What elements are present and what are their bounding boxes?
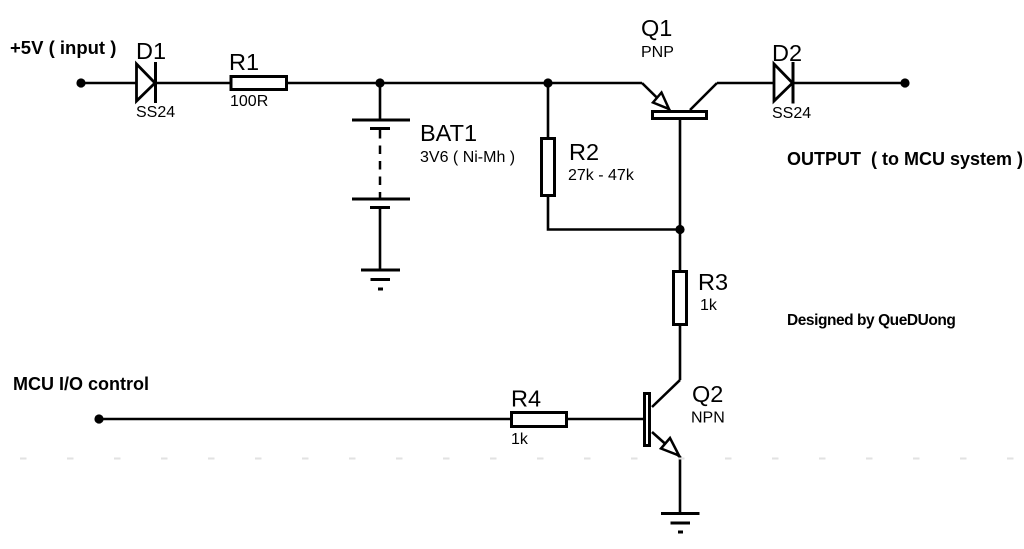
svg-text:D2: D2	[772, 40, 802, 66]
node junction R2 tap	[543, 78, 552, 87]
svg-text:R3: R3	[698, 269, 728, 295]
wire input to D1	[81, 82, 136, 85]
svg-text:MCU I/O control: MCU I/O control	[13, 374, 149, 394]
resistor R1	[231, 77, 287, 90]
svg-text:R1: R1	[229, 49, 259, 75]
battery BAT1	[352, 120, 410, 208]
wire base node to R3	[679, 230, 682, 272]
resistor R2	[542, 139, 555, 196]
ground (Q2 emitter)	[661, 514, 700, 533]
resistor R3	[674, 272, 687, 325]
resistor R4	[512, 413, 567, 427]
svg-text:Q2: Q2	[692, 381, 723, 407]
wire R3 to Q2 collector	[679, 326, 682, 380]
node junction base node	[675, 225, 684, 234]
wire battery tap to R2 tap	[380, 82, 548, 85]
node junction battery tap	[375, 78, 384, 87]
ground (battery)	[361, 270, 400, 289]
wire battery bottom lead	[379, 208, 382, 270]
wire battery top lead	[379, 83, 382, 120]
svg-text:PNP: PNP	[641, 44, 674, 61]
svg-text:R2: R2	[569, 139, 599, 165]
svg-text:3V6 ( Ni-Mh ): 3V6 ( Ni-Mh )	[420, 149, 515, 166]
wire MCU terminal to R4	[99, 418, 511, 421]
svg-text:OUTPUT ( to MCU system ): OUTPUT ( to MCU system )	[787, 149, 1023, 169]
diode D2	[774, 62, 793, 104]
node MCU control terminal	[94, 414, 103, 423]
wire R2 top lead	[547, 83, 550, 137]
wire D1 to R1	[156, 82, 231, 85]
svg-text:NPN: NPN	[691, 410, 725, 427]
svg-text:R4: R4	[511, 386, 541, 412]
svg-text:27k - 47k: 27k - 47k	[568, 167, 635, 184]
wire R2 tap to Q1 emitter	[548, 82, 642, 85]
diode D1	[137, 62, 156, 103]
svg-text:BAT1: BAT1	[420, 120, 477, 146]
svg-text:SS24: SS24	[772, 105, 811, 122]
wire R4 to Q2 base	[568, 418, 644, 421]
svg-text:1k: 1k	[700, 297, 718, 314]
svg-text:100R: 100R	[230, 93, 268, 110]
node output terminal	[900, 78, 909, 87]
svg-text:D1: D1	[136, 38, 166, 64]
wire D2 to output	[793, 82, 905, 85]
node input terminal	[76, 78, 85, 87]
svg-text:+5V ( input ): +5V ( input )	[10, 37, 116, 58]
wire Q1 collector to D2	[717, 82, 774, 85]
transistor Q2	[645, 380, 681, 457]
transistor Q1	[642, 83, 717, 119]
svg-text:SS24: SS24	[136, 104, 175, 121]
svg-text:Q1: Q1	[641, 15, 672, 41]
svg-text:Designed by QueDUong: Designed by QueDUong	[787, 312, 955, 329]
wire Q1 base to base node	[679, 120, 682, 230]
wire Q2 emitter to ground	[679, 456, 682, 514]
wire R2 bottom to base node	[548, 196, 680, 230]
svg-text:1k: 1k	[511, 431, 529, 448]
wire R1 to battery tap	[288, 82, 380, 85]
